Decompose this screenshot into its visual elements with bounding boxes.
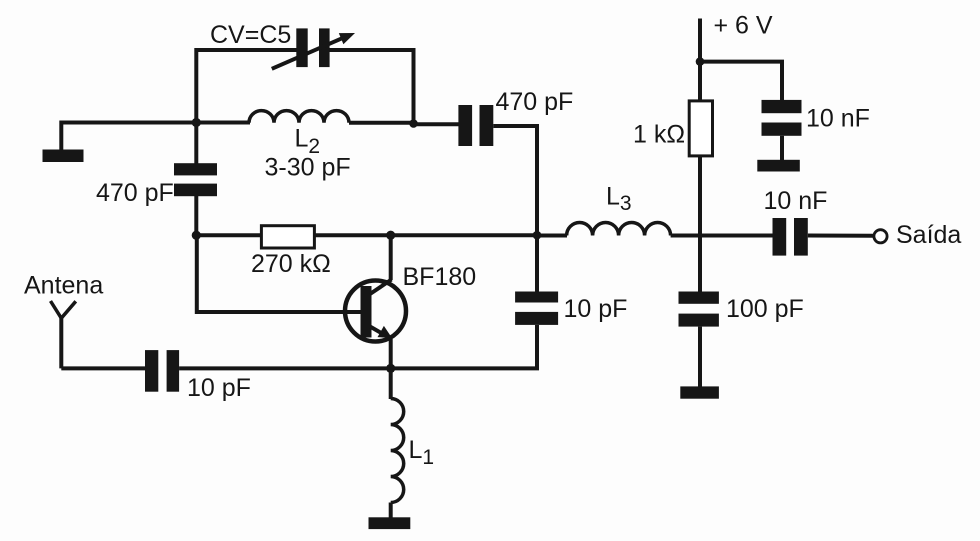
svg-text:1 kΩ: 1 kΩ (633, 121, 685, 149)
capacitor 10 nF (decoupling) (762, 100, 802, 136)
wire antenna to 10pF series (61, 366, 145, 370)
capacitor 470 pF (shunt, left) (174, 163, 217, 196)
resistor 1 kΩ (689, 101, 712, 156)
node E (533, 231, 542, 240)
ground (L1) (369, 517, 411, 529)
capacitor 10 pF (series, antenna) (145, 350, 179, 392)
svg-text:470 pF: 470 pF (96, 179, 174, 207)
wire 10pF series to node G and on to 10pF shunt (179, 325, 537, 368)
inductor L1 (391, 399, 404, 503)
wire resistor to node D (314, 233, 390, 237)
ground (decoupling) (757, 160, 800, 172)
node B (409, 119, 418, 128)
ground (tank left) (43, 150, 84, 163)
node A (192, 118, 201, 127)
wire node E to L3 (537, 234, 567, 238)
wire 1k resistor down through row to 100pF (698, 156, 702, 292)
svg-text:Antena: Antena (24, 272, 103, 300)
node C (192, 231, 201, 240)
node G (emitter node) (386, 364, 395, 373)
wire 470pF shunt to node C (194, 196, 198, 235)
svg-text:10 pF: 10 pF (187, 374, 251, 402)
node H (supply node) (696, 57, 705, 66)
svg-text:3-30 pF: 3-30 pF (265, 154, 351, 182)
output terminal Saída (874, 230, 887, 243)
wire node A down to 470pF shunt (194, 123, 198, 165)
wire node D to node E (391, 233, 537, 237)
svg-text:100 pF: 100 pF (726, 295, 804, 323)
wire node G down to L1 (389, 368, 393, 399)
wire 10nF to output (808, 234, 873, 238)
svg-text:270 kΩ: 270 kΩ (251, 250, 331, 278)
antenna (51, 301, 76, 368)
svg-text:470 pF: 470 pF (496, 88, 574, 116)
resistor 270 kΩ (261, 226, 314, 248)
svg-text:BF180: BF180 (403, 263, 477, 291)
variable capacitor CV=C5 (272, 28, 355, 68)
wire node E down to 10pF shunt (535, 235, 539, 292)
capacitor 470 pF (series, top right) (458, 105, 493, 146)
capacitor 10 pF (shunt) (515, 292, 558, 325)
svg-text:CV=C5: CV=C5 (210, 21, 291, 49)
capacitor 100 pF (679, 292, 719, 327)
wire node A up to CV left lead (196, 50, 296, 124)
ground (100pF) (680, 386, 719, 398)
wire base branch from node C (197, 235, 361, 312)
wire L2 to node B (349, 121, 414, 125)
wire node B to 470pF series (412, 122, 460, 126)
wire tank top-left to node A (61, 123, 196, 151)
wire 470pF series down to node E (493, 126, 537, 235)
capacitor 10 nF (series, output) (773, 218, 808, 256)
wire emitter down to node G (389, 339, 393, 368)
wire 10nF decoupling to ground (780, 136, 784, 160)
wire collector up to node D (389, 235, 393, 280)
inductor L3 (567, 223, 671, 236)
node D (collector node) (386, 231, 395, 240)
wire node H to 10nF decoupling (700, 62, 782, 101)
svg-text:10 pF: 10 pF (564, 295, 628, 323)
+6V supply lead (698, 19, 702, 102)
wire node A to L2 (196, 121, 250, 125)
inductor L2 (249, 111, 349, 123)
svg-text:+ 6 V: + 6 V (714, 11, 773, 39)
wire L1 to ground (389, 503, 393, 519)
svg-text:Saída: Saída (896, 221, 961, 249)
svg-text:10 nF: 10 nF (764, 187, 828, 215)
wire CV right lead down to node B (330, 50, 414, 124)
wire 100pF to ground (698, 327, 702, 387)
svg-text:10 nF: 10 nF (806, 105, 870, 133)
transistor Q1 BF180 (345, 280, 406, 342)
wire node C to resistor 270k (196, 233, 262, 237)
wire L3 to 10nF series (crosses 1k line) (671, 234, 773, 238)
